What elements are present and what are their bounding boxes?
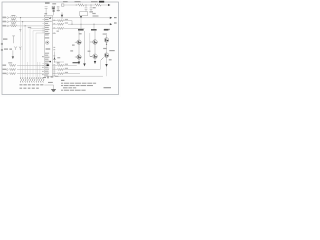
resistor R4 <box>10 64 16 66</box>
input jack J1a <box>3 17 7 19</box>
column wire col1 <box>78 31 80 61</box>
wire long row1 to arrow <box>52 17 110 19</box>
capacitor C2 <box>57 7 60 12</box>
wye mark <box>19 47 21 50</box>
node dot <box>22 21 23 22</box>
resistor R8 <box>78 4 84 6</box>
connector J2 <box>62 4 64 6</box>
resistor R6 <box>10 73 16 75</box>
resistor R1 <box>11 17 17 19</box>
transistor label bar Q3 (dark) <box>91 29 97 30</box>
off-page arrow <box>110 17 112 19</box>
right pin numbers <box>53 20 59 76</box>
labels near transistors <box>70 50 73 51</box>
column wire col2 <box>94 31 96 61</box>
notes title <box>61 80 64 81</box>
stub wire pin right <box>52 33 56 35</box>
label above R4 <box>8 62 12 63</box>
lower bus <box>52 75 103 77</box>
tick marks base col1 <box>75 42 77 57</box>
transistor Q5 <box>93 54 98 59</box>
resistor R9 <box>95 4 101 6</box>
wire to terminal <box>101 4 108 6</box>
wire from diode <box>55 61 65 63</box>
resistor R15 <box>58 73 64 75</box>
node dot <box>90 4 91 5</box>
resistor R3 <box>11 25 17 27</box>
base stub Q6 <box>101 57 104 60</box>
wire <box>17 17 45 19</box>
wire col3 emitter to bus <box>106 67 108 76</box>
vertical bus wires <box>20 18 22 79</box>
notes line 2 <box>61 85 93 86</box>
capacitor C5 <box>90 5 93 11</box>
input jack J1c <box>3 25 7 27</box>
title text top right <box>91 1 98 3</box>
label top bus left <box>63 1 68 2</box>
base arrow Q5 <box>90 56 92 58</box>
label 4x <box>55 76 58 77</box>
notes line 1 <box>61 83 96 84</box>
transistor Q3 <box>104 38 109 43</box>
node dot <box>25 25 26 26</box>
wire down from switch <box>12 50 14 56</box>
left pin stubs <box>42 20 44 66</box>
notes line 3 <box>63 87 76 88</box>
arrow down <box>12 56 14 59</box>
label right of arrow <box>114 22 117 23</box>
digit line <box>84 31 86 63</box>
transistor Q4 <box>77 55 81 59</box>
value label C5 <box>93 7 96 8</box>
wire <box>17 21 45 23</box>
connector pins row <box>20 77 44 82</box>
label near bus <box>28 27 31 28</box>
node dot <box>61 17 62 18</box>
label under IC <box>48 82 53 83</box>
node dot lower <box>49 61 51 63</box>
base line col2 <box>89 33 91 56</box>
input row E <box>3 69 7 70</box>
label pin <box>57 31 59 32</box>
label above oscillator <box>45 2 50 3</box>
pin numbers left of IC <box>42 56 44 75</box>
base drop wires <box>80 24 82 29</box>
label above R top bus <box>75 1 81 2</box>
resistor R14 <box>58 68 64 70</box>
resistor R13 <box>58 64 64 66</box>
crystal Y1 <box>52 6 55 9</box>
switch S1 <box>3 38 7 39</box>
value label R1 <box>11 15 15 16</box>
capacitor C1 <box>45 7 48 16</box>
down arrows to display <box>78 62 80 65</box>
part number label (dark) <box>99 1 104 3</box>
ground <box>51 90 56 92</box>
IC pin labels lower <box>45 53 49 76</box>
resistor R10 row <box>52 20 57 22</box>
wire base col3 to bus <box>100 60 102 70</box>
label right of arrow <box>114 17 117 18</box>
input jack J1b <box>3 21 7 23</box>
IC pin labels upper <box>45 17 52 36</box>
transistor Q1 <box>77 40 81 44</box>
node dot <box>76 4 77 5</box>
transistor Q2 <box>93 40 98 45</box>
node dot <box>20 17 21 18</box>
node dot <box>85 4 86 5</box>
digit wire continues <box>80 18 82 24</box>
value label C2 <box>57 10 60 11</box>
label right of box <box>92 13 95 14</box>
wire to ground <box>44 85 53 89</box>
label test point <box>104 29 110 30</box>
input row F <box>3 73 7 74</box>
value label <box>89 11 93 12</box>
supply arrow into pin <box>61 12 63 15</box>
zone mark left B <box>1 43 3 44</box>
wire <box>84 4 95 6</box>
base dash Q2 <box>90 41 93 43</box>
off-page arrow <box>110 23 112 25</box>
transistor label bar Q1 (dark) <box>78 29 84 30</box>
node dot on pin <box>49 18 50 19</box>
terminal arrow <box>108 4 110 6</box>
border frame <box>2 2 119 95</box>
value label R2 <box>11 19 15 20</box>
label below IC left <box>43 77 46 78</box>
resistor R11 row <box>52 23 57 25</box>
connector labels row1 <box>20 84 44 85</box>
segment resistor rows right of IC <box>52 64 57 66</box>
value label R3 <box>11 23 15 24</box>
label <box>57 57 60 58</box>
wire crystal leads <box>52 9 54 15</box>
capacitor C4 <box>85 5 88 12</box>
crystal label <box>52 3 56 4</box>
switch S2 <box>4 48 8 49</box>
dark pin dot <box>47 64 49 66</box>
IC name label <box>46 48 51 49</box>
resistor R5 <box>10 68 16 70</box>
connector labels row2 <box>20 88 39 89</box>
transistor Q6 <box>104 53 109 58</box>
resistor R2 <box>11 21 17 23</box>
column wire col3 <box>106 33 108 64</box>
tee mark <box>19 30 21 32</box>
IC U1 outline <box>44 15 52 76</box>
doc number <box>104 87 112 88</box>
label <box>93 15 99 16</box>
wire <box>17 25 45 27</box>
wires bottom-left rows into IC <box>17 64 44 66</box>
zone mark left C <box>1 49 3 50</box>
transistor label bar Q5 (dark) <box>104 29 109 30</box>
logo circle <box>46 41 49 44</box>
diode D1 on wire <box>54 52 56 63</box>
IC bottom arrows <box>47 77 49 79</box>
wire top bus <box>64 4 78 6</box>
wire long row2 to arrow <box>68 23 110 25</box>
notes line 4 <box>61 90 86 91</box>
component box above wire <box>80 12 88 16</box>
input row D <box>3 65 7 66</box>
resistor R12 row <box>52 27 57 29</box>
IC sub label <box>45 37 49 38</box>
arrow into wire <box>80 16 82 18</box>
